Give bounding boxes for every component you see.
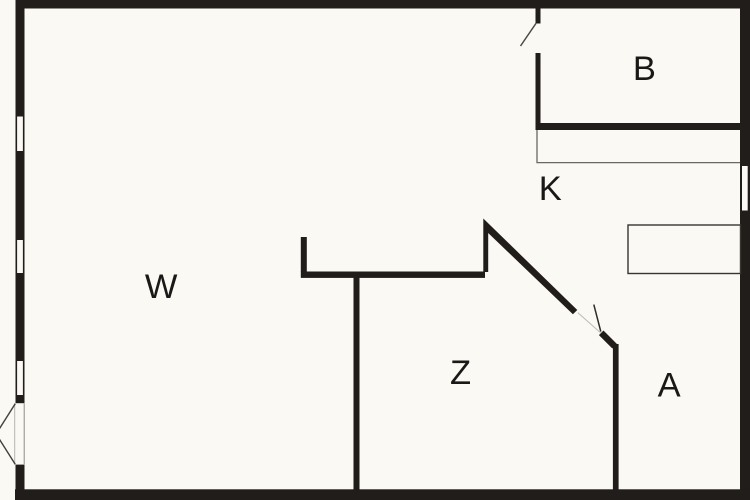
svg-text:Z: Z: [450, 354, 471, 392]
window W1 left: [16, 117, 25, 152]
wall top: [16, 0, 750, 9]
bay door line upper: [0, 404, 15, 436]
wall Z northeast vertical: [483, 219, 577, 315]
wall stub B top: [536, 9, 541, 24]
svg-text:K: K: [539, 170, 562, 208]
door line faint Z: [578, 313, 601, 333]
window W2 left: [16, 240, 25, 273]
wall W/Z horizontal: [301, 272, 485, 278]
svg-text:W: W: [145, 268, 178, 306]
counter K: [537, 130, 740, 163]
svg-text:B: B: [633, 50, 656, 88]
svg-text:A: A: [658, 367, 681, 405]
wall B west: [536, 53, 541, 130]
wardrobe A: [628, 225, 741, 274]
bay door line lower: [0, 432, 15, 464]
door swing B: [521, 24, 536, 47]
wall left: [16, 0, 25, 500]
wall right: [740, 0, 750, 500]
window W3 left: [16, 361, 25, 395]
door leaf Z: [594, 305, 601, 332]
wall stub W: [301, 237, 307, 272]
wall Z west: [354, 277, 360, 490]
window right wall: [740, 166, 750, 211]
bay opening left: [15, 403, 25, 464]
wall B south: [536, 123, 741, 130]
wall bottom: [15, 489, 750, 500]
wall Z east: [613, 344, 619, 490]
wall jamb diagonal A: [601, 333, 614, 346]
